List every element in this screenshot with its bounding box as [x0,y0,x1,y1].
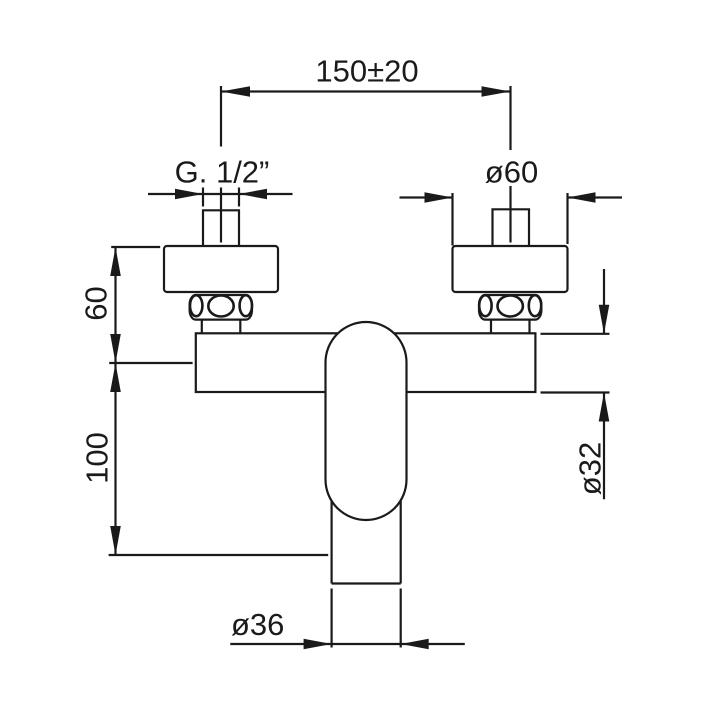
svg-text:ø36: ø36 [231,607,284,642]
svg-text:60: 60 [78,286,113,320]
dimension 100 [109,363,329,555]
right neck [491,320,530,334]
svg-text:100: 100 [80,432,115,484]
label ø36 [231,607,284,642]
left nut [190,295,252,320]
dimension ø36 [230,589,464,650]
label 150±20 [315,54,418,89]
svg-text:ø32: ø32 [573,442,608,495]
left centerline [220,188,222,243]
svg-text:ø60: ø60 [485,155,538,190]
label G. 1/2" [175,155,270,190]
handle oval [326,322,407,520]
main body tube [196,333,536,392]
right centerline [509,186,511,243]
label 100 [80,432,115,484]
label ø32 [573,442,608,495]
left thread pipe [203,210,239,246]
dimension ø60 [400,192,623,245]
dimension 60 [110,247,160,363]
dimension 150±20 [221,86,511,150]
left neck [202,320,241,334]
left valve housing [164,246,278,292]
right nut [479,295,541,320]
dimension G. 1/2" [148,188,293,207]
right thread pipe [493,209,530,246]
label ø60 [485,155,538,190]
svg-text:G. 1/2”: G. 1/2” [175,155,270,190]
spout tube [332,460,401,584]
dimension ø32 [541,269,610,499]
right valve housing [453,246,568,292]
label 60 [78,286,113,320]
svg-text:150±20: 150±20 [315,54,418,89]
